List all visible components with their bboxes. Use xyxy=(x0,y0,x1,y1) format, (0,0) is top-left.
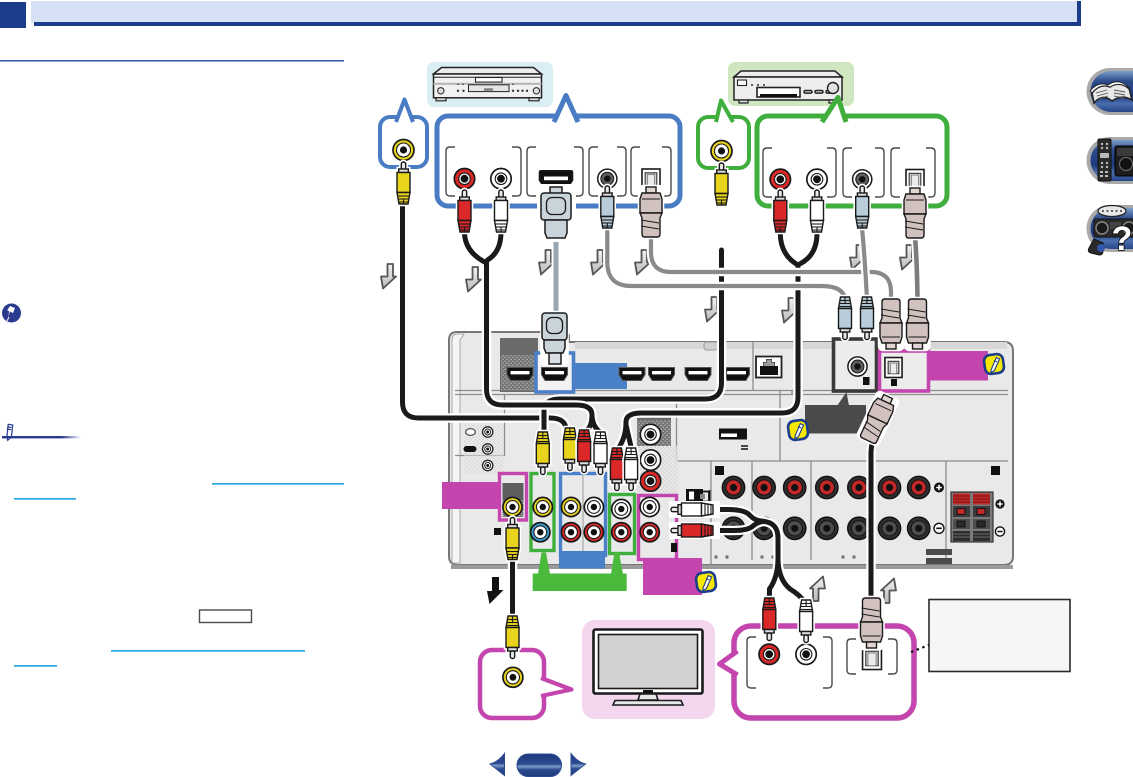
hyperlink underline 1 xyxy=(212,483,344,485)
plug: optical tuner into receiver xyxy=(907,299,929,349)
plug: optical DVD into receiver xyxy=(880,299,902,349)
arrow: optical input xyxy=(900,245,915,270)
bracket: tuner analog audio out group xyxy=(763,148,836,197)
blue highlight fill below xyxy=(559,551,605,569)
port: DVD HDMI out xyxy=(540,171,573,188)
coaxial digital in box xyxy=(834,339,877,391)
jack: component Pr xyxy=(640,471,660,491)
plug: coaxial (tuner end) xyxy=(856,186,869,228)
port: tuner optical digital out xyxy=(906,170,924,191)
speaker terminal section xyxy=(711,461,946,565)
magenta callout: TV video in xyxy=(480,650,572,718)
plug: white audio (DVD end) xyxy=(495,190,508,232)
bottom nav previous-page arrow xyxy=(490,754,505,776)
Blu-ray disc player highlight background xyxy=(427,62,553,107)
jack: TV audio out R (red) xyxy=(759,644,779,664)
arrow: composite video cable xyxy=(381,264,396,289)
plug: optical (tuner end) xyxy=(904,188,926,238)
antenna jack 2 xyxy=(483,444,493,454)
jack: analog out R (red) xyxy=(640,523,659,542)
blue highlight box: DVD inputs xyxy=(561,474,606,556)
wire: composite video cable (tuner to receiver) xyxy=(544,250,722,437)
jack: DVD coaxial digital out xyxy=(598,169,617,188)
antenna terminal area xyxy=(464,424,504,474)
memo icon: coaxial input note xyxy=(787,419,808,440)
plug: optical out to TV (receiver end, tilted) xyxy=(858,392,898,445)
magenta highlight box: monitor out xyxy=(500,474,527,521)
screw square xyxy=(671,543,677,552)
jack: TV audio in R (red) xyxy=(612,523,631,542)
magenta highlight fill right xyxy=(928,351,988,381)
plug: white tuner audio into receiver xyxy=(625,448,638,491)
plug: yellow DVD video into receiver xyxy=(563,428,576,471)
pushpin note icon xyxy=(2,304,21,323)
note pencil icon xyxy=(3,423,17,440)
plug: red audio into TV callout xyxy=(763,598,776,641)
jack: monitor out video (yellow) xyxy=(503,497,522,516)
jack: DVD analog audio out R (red) xyxy=(454,169,474,189)
plug: red analog out (receiver end) xyxy=(671,524,718,537)
plug: red audio (tuner end) xyxy=(774,190,787,232)
hyperlink underline 3 xyxy=(111,650,305,652)
wire: coaxial digital cable (DVD) xyxy=(607,230,845,301)
plug: red tuner audio into receiver xyxy=(610,448,623,491)
wire: optical digital cable (tuner) xyxy=(915,237,918,300)
magenta callout: TV audio outputs xyxy=(720,626,915,718)
arrow: analog audio cable xyxy=(466,267,481,292)
blue highlight fill (HDMI inputs) xyxy=(574,363,627,389)
power cord bars xyxy=(926,549,952,555)
wire: optical digital from TV xyxy=(871,434,877,599)
HDMI port xyxy=(724,368,750,381)
plug: HDMI (DVD end) xyxy=(539,186,574,240)
TV highlight background xyxy=(582,620,715,719)
green highlight fill + pointers xyxy=(533,553,627,592)
bracket: coaxial digital out group xyxy=(589,147,626,196)
HDMI port xyxy=(649,368,675,381)
jack: coaxial digital in xyxy=(848,357,867,376)
panel divider lines xyxy=(455,342,1008,461)
setup mic slot xyxy=(719,429,748,450)
arrow: tuner video cable xyxy=(705,297,720,322)
hyperlink underline 4 xyxy=(14,665,57,667)
minus mark xyxy=(934,523,944,533)
wire: coaxial digital cable (tuner) xyxy=(862,230,867,300)
satellite tuner xyxy=(734,71,842,103)
black arrow: monitor out to TV xyxy=(487,577,504,604)
magenta highlight box: analog out xyxy=(639,496,677,560)
plug: white DVD audio into receiver xyxy=(594,432,607,475)
jack: DVD audio in L (white) xyxy=(584,497,603,516)
port: DVD optical digital out xyxy=(642,169,660,190)
plug: coaxial DVD into receiver xyxy=(839,297,852,340)
port: TV optical digital out xyxy=(863,647,882,669)
header bar xyxy=(31,1,1081,23)
bottom nav next-page arrow xyxy=(571,754,586,776)
spring clip speaker terminals xyxy=(951,492,993,542)
jack: tuner analog audio out L (white) xyxy=(807,169,827,189)
green callout: composite video out xyxy=(698,101,749,169)
magenta highlight fill below xyxy=(643,558,702,595)
bracket: analog audio out group xyxy=(446,147,521,196)
satellite tuner highlight background xyxy=(728,62,854,106)
HDMI port xyxy=(507,368,533,381)
wire: monitor out video to TV xyxy=(508,552,518,617)
arrow: TV audio cable up xyxy=(810,577,825,602)
bracket: tuner optical out group xyxy=(891,148,935,197)
jack: tuner composite video out (yellow) xyxy=(711,141,732,162)
LAN port xyxy=(756,357,782,378)
speaker binding posts row + (red) xyxy=(722,476,930,498)
blue callout: composite video out xyxy=(380,100,427,168)
IR control block xyxy=(686,489,710,503)
page-number button outline xyxy=(200,610,252,623)
magenta highlight fill: monitor out label area xyxy=(442,482,499,509)
minus mark 2 xyxy=(995,527,1004,536)
bottom nav page pill xyxy=(517,754,562,777)
HDMI input block (dark) xyxy=(500,338,538,392)
jack: SAT video in (yellow) xyxy=(533,497,552,516)
plug: yellow monitor out (receiver end) xyxy=(506,518,519,560)
plug: coaxial (DVD end) xyxy=(601,186,614,228)
memo icon: analog out note xyxy=(695,571,716,592)
nav button: control panel illustration xyxy=(1087,137,1133,184)
jack: DVD analog audio out L (white) xyxy=(491,169,511,189)
jack: audio in R (red) xyxy=(584,523,603,542)
wire: composite video cable (DVD to receiver) xyxy=(403,206,567,434)
wire: optical digital cable (DVD) xyxy=(651,235,891,299)
plug: yellow SAT video into receiver xyxy=(536,432,549,475)
plug: HDMI into receiver xyxy=(542,312,568,364)
plug: coaxial tuner into receiver xyxy=(861,297,874,340)
HDMI port xyxy=(619,368,645,381)
screw square xyxy=(494,528,501,535)
memo icon: optical input note xyxy=(983,353,1004,374)
arrow: tuner audio cable xyxy=(782,298,797,323)
jack: subwoofer pre-out (blue) xyxy=(531,523,550,542)
header navy square xyxy=(0,2,26,28)
HDMI BD-IN highlight box (blue) xyxy=(536,353,574,392)
antenna jack 3 xyxy=(483,460,493,470)
green highlight box: TV/SAT video in xyxy=(531,474,554,551)
note box xyxy=(929,600,1070,672)
plug body xyxy=(858,392,898,445)
arrow: coaxial input xyxy=(850,245,865,270)
plug: white audio into TV callout xyxy=(800,600,813,643)
green highlight box: TV audio in xyxy=(610,495,635,554)
hyperlink underline 2 xyxy=(14,498,76,500)
jack: tuner coaxial digital out xyxy=(853,170,872,189)
TV set xyxy=(594,630,703,706)
plug: optical into TV callout xyxy=(861,598,883,648)
receiver rear panel body xyxy=(449,332,1013,569)
bracket: TV optical out xyxy=(847,639,897,674)
jack: DVD video in (yellow) xyxy=(561,497,580,516)
arrow: optical cable xyxy=(635,250,650,275)
nav button: operating instructions (book icon) xyxy=(1087,68,1133,115)
jack: analog out L (white) xyxy=(640,497,659,516)
plug: white analog out (receiver end) xyxy=(671,503,718,516)
plus mark xyxy=(934,483,944,493)
FM antenna socket xyxy=(464,446,477,452)
jack: component Pb xyxy=(640,450,660,470)
screw squares xyxy=(715,466,724,475)
jack: component Y xyxy=(640,424,660,444)
bracket: optical digital out group xyxy=(631,147,671,196)
component video block xyxy=(637,417,671,446)
wire: analog audio cables (DVD to receiver) xyxy=(465,232,600,432)
port: optical digital in 1 xyxy=(885,358,902,378)
plug: red audio (DVD end) xyxy=(458,190,471,232)
arrow: TV optical cable up xyxy=(881,579,896,604)
HDMI port xyxy=(542,368,568,381)
dotted leader line xyxy=(911,645,929,652)
arrow: coaxial cable xyxy=(591,250,606,275)
green callout: tuner outputs xyxy=(757,98,947,207)
plug: yellow monitor out (TV end) xyxy=(506,616,519,659)
jack: TV audio out L (white) xyxy=(796,644,816,664)
antenna jack 1 xyxy=(483,427,493,437)
wire: analog audio out to TV xyxy=(718,510,805,603)
wire: analog audio cables (tuner to receiver) xyxy=(619,233,817,448)
plug: yellow composite (tuner end) xyxy=(715,163,728,205)
wire: HDMI cable xyxy=(552,235,561,316)
HDMI port xyxy=(685,368,711,381)
bracket: tuner coaxial out group xyxy=(843,148,884,197)
plus mark 2 xyxy=(995,499,1004,508)
grey instruction callout xyxy=(805,392,866,434)
jack: DVD composite video out (yellow) xyxy=(393,140,414,161)
plug: yellow composite (DVD end) xyxy=(397,162,410,204)
jack: DVD audio in R (red) xyxy=(561,523,580,542)
jack: TV video in (yellow) xyxy=(503,667,523,687)
Blu-ray disc player xyxy=(434,68,542,101)
speaker binding posts row - (black) xyxy=(722,517,930,539)
arrow: HDMI cable xyxy=(539,250,554,275)
note divider line xyxy=(0,0,1,1)
plug: white audio (tuner end) xyxy=(811,190,824,232)
nav button: FAQ / troubleshooting xyxy=(1086,205,1133,258)
bracket: TV analog audio out xyxy=(747,637,832,688)
bracket: HDMI out group xyxy=(527,147,583,196)
title underline xyxy=(0,60,344,62)
plug: optical (DVD end) xyxy=(640,187,662,237)
plug: red DVD audio into receiver xyxy=(578,430,591,473)
svg-text:?: ? xyxy=(1112,220,1133,258)
AM loop antenna jack xyxy=(466,429,476,436)
tiny screws bottom xyxy=(714,555,855,558)
jack: tuner analog audio out R (red) xyxy=(770,169,790,189)
blue callout: DVD player outputs xyxy=(437,96,680,207)
magenta highlight box: optical digital in xyxy=(880,351,929,391)
jack: TV audio in L (white) xyxy=(612,499,631,518)
